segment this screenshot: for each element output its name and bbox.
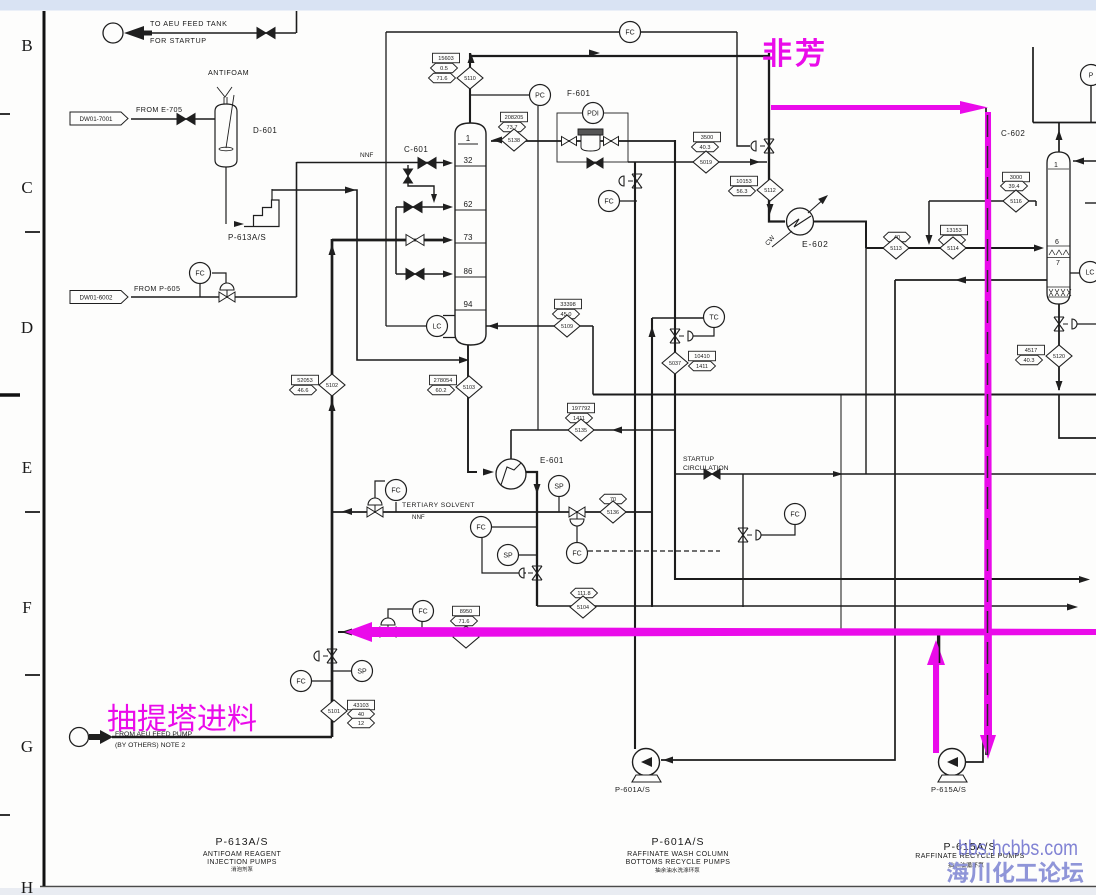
- instrument SP e601: [549, 476, 570, 497]
- valve tray32 bypass: [404, 169, 413, 183]
- svg-text:P-601A/S: P-601A/S: [652, 836, 705, 848]
- control valve overhead x769: [751, 139, 774, 153]
- tag 197792: [568, 403, 595, 413]
- svg-text:5113: 5113: [890, 246, 902, 252]
- svg-text:40.3: 40.3: [700, 145, 711, 151]
- wire NNF line y163: [297, 162, 444, 164]
- wire PC signal drop x538: [537, 106, 539, 430]
- arrow into tray62: [443, 204, 453, 211]
- wire feed line y240: [332, 239, 443, 242]
- wire SP stem: [558, 497, 560, 512]
- magenta label feed: [108, 704, 256, 732]
- wire FC dw6002 signal: [200, 273, 226, 297]
- svg-text:33398: 33398: [560, 302, 576, 308]
- diamond 5103: [456, 376, 482, 398]
- wire FC396 stem: [395, 502, 397, 512]
- top blue strip: [0, 0, 1096, 11]
- wire FC577 dashed: [588, 550, 720, 552]
- instrument FC dw6002: [190, 263, 211, 284]
- watermark haichuan forum: [947, 861, 1084, 883]
- arrow into E-602: [767, 204, 774, 214]
- svg-text:1411: 1411: [696, 364, 708, 370]
- wire C-602 bottom valve tail: [1075, 323, 1096, 325]
- wire C-602 bottoms: [1058, 304, 1060, 390]
- svg-text:P-613A/S: P-613A/S: [228, 233, 266, 242]
- zone tick: [25, 674, 40, 676]
- arrow 5135 left: [612, 427, 622, 434]
- svg-text:FC: FC: [391, 487, 400, 494]
- svg-text:F-601: F-601: [567, 89, 590, 98]
- wire C-602 overhead: [1033, 47, 1096, 152]
- svg-text:D-601: D-601: [253, 126, 277, 135]
- thick arrow from AEU pump: [89, 730, 113, 744]
- arrow steps inlet: [234, 221, 244, 227]
- tag 0.5: [431, 63, 458, 73]
- instrument FC recycle: [599, 191, 620, 212]
- arrow recycle right: [750, 159, 760, 166]
- arrow tertiary left: [342, 508, 352, 515]
- arrow into P-601: [663, 757, 673, 764]
- wire 5135 line y430: [511, 429, 675, 431]
- wire TC branch y318: [652, 317, 703, 319]
- arrow y607 right: [1067, 604, 1078, 611]
- exchanger E-602: [772, 198, 825, 247]
- tag 70: [600, 494, 627, 504]
- svg-text:197792: 197792: [572, 406, 591, 412]
- svg-text:5103: 5103: [463, 385, 475, 391]
- svg-text:P: P: [1089, 72, 1094, 79]
- svg-text:FC: FC: [625, 29, 634, 36]
- arrow P-613 discharge: [345, 187, 356, 194]
- zone tick: [0, 814, 10, 816]
- tag 71.6a: [429, 73, 456, 83]
- svg-text:FROM P-605: FROM P-605: [134, 284, 180, 293]
- svg-text:5104: 5104: [577, 605, 589, 611]
- wire tertiary dome signal: [375, 481, 385, 499]
- svg-text:FC: FC: [790, 511, 799, 518]
- wire return drop x895: [661, 280, 895, 760]
- wire main feed riser x332: [331, 239, 334, 737]
- tag 8950: [453, 606, 480, 616]
- valve tray73: [406, 235, 424, 246]
- wire AEU feed pump line: [112, 736, 332, 739]
- svg-text:(BY OTHERS) NOTE 2: (BY OTHERS) NOTE 2: [115, 742, 185, 749]
- svg-text:32: 32: [464, 156, 473, 165]
- wire 5116 branch: [929, 201, 1036, 206]
- arrow y579 right: [1079, 576, 1090, 583]
- wire long line y396: [593, 394, 1096, 396]
- control valve C-602 bottoms: [1054, 317, 1077, 331]
- wire FC481 signal: [492, 526, 537, 528]
- svg-text:71.6: 71.6: [459, 619, 470, 625]
- arrow into tray73: [443, 237, 453, 244]
- magenta up arrow: [927, 640, 945, 753]
- instrument LC C-602: [1080, 262, 1096, 283]
- valve from E-705: [177, 114, 195, 125]
- svg-text:12: 12: [358, 721, 364, 727]
- diamond 5110: [457, 67, 483, 89]
- pump steps P-613A/S: [226, 167, 279, 227]
- svg-text:39.4: 39.4: [1009, 184, 1020, 190]
- control valve E-601 out: [519, 566, 542, 580]
- svg-text:15603: 15603: [438, 56, 454, 62]
- arrow feed up2: [329, 400, 336, 411]
- svg-text:43103: 43103: [353, 703, 369, 709]
- wire C-602 return y280: [895, 279, 1047, 281]
- svg-text:1: 1: [1054, 162, 1058, 169]
- wire E-602 outlet: [813, 222, 866, 249]
- instrument FC 5136: [567, 543, 588, 564]
- tag 10410: [689, 351, 716, 361]
- svg-text:PC: PC: [535, 92, 545, 99]
- filter F-601 element: [578, 129, 603, 151]
- arrow into tray86: [443, 271, 453, 278]
- valve tray86: [406, 269, 424, 280]
- wire black under magenta x986: [985, 108, 987, 755]
- wire bottoms recycle y632: [338, 631, 938, 633]
- control valve DW01-6002: [219, 283, 235, 302]
- arrow bottoms down: [1056, 381, 1063, 391]
- svg-text:0.5: 0.5: [440, 66, 448, 72]
- exchanger E-601: [496, 459, 526, 489]
- control valve tertiary solvent: [367, 498, 383, 517]
- svg-text:E-602: E-602: [802, 239, 829, 249]
- off-page connector TO AEU: [103, 23, 123, 43]
- wire E-601 outlet: [526, 472, 537, 606]
- wire thin drop x841: [840, 395, 842, 633]
- diamond 5116: [1003, 190, 1029, 212]
- svg-text:B: B: [21, 36, 32, 55]
- svg-text:5037: 5037: [669, 361, 681, 367]
- svg-text:8950: 8950: [460, 609, 472, 615]
- valve tray32: [418, 158, 436, 169]
- arrow into column tray1: [492, 137, 502, 144]
- tag 40.3b: [1016, 355, 1043, 365]
- wire column overhead to F-601: [491, 140, 676, 142]
- diamond 5104: [570, 596, 596, 618]
- pump P-601A/S: [632, 749, 661, 783]
- wire LC connect: [386, 325, 426, 327]
- svg-text:94: 94: [464, 300, 473, 309]
- svg-text:10410: 10410: [694, 354, 710, 360]
- wire FC301 line: [312, 680, 332, 682]
- diamond 5137: [662, 352, 688, 374]
- arrow E-601 out down: [534, 484, 541, 494]
- instrument TC: [704, 307, 725, 328]
- column C-602: [1047, 152, 1071, 304]
- tag 13153: [941, 225, 968, 235]
- tag 52053: [292, 375, 319, 385]
- svg-text:5135: 5135: [575, 428, 587, 434]
- tag 40.3a: [692, 142, 719, 152]
- wire FC drop x743: [742, 474, 744, 607]
- D-601 vent funnel: [217, 87, 232, 104]
- svg-text:FC: FC: [604, 198, 613, 205]
- svg-text:E-601: E-601: [540, 456, 564, 465]
- arrow into C-602 top: [1074, 158, 1084, 165]
- wire DW01-7001 line: [131, 118, 215, 120]
- wire TC signal: [690, 328, 714, 336]
- arrow bypass down: [431, 194, 437, 203]
- svg-text:FOR STARTUP: FOR STARTUP: [150, 36, 207, 45]
- svg-text:INJECTION PUMPS: INJECTION PUMPS: [207, 859, 277, 866]
- svg-text:TO AEU FEED TANK: TO AEU FEED TANK: [150, 19, 228, 28]
- tag 278054: [430, 375, 457, 385]
- svg-text:PDI: PDI: [587, 110, 599, 117]
- svg-text:LC: LC: [433, 323, 442, 330]
- instrument FC feed: [291, 671, 312, 692]
- svg-text:5109: 5109: [561, 324, 573, 330]
- wire FC423 signal: [388, 609, 412, 621]
- wire P-615 discharge stub: [966, 740, 983, 762]
- valve startup circ: [704, 469, 720, 479]
- svg-text:5019: 5019: [700, 160, 712, 166]
- wire FC577 drop: [576, 526, 578, 542]
- wire hot feed drop x675: [675, 140, 1084, 579]
- diamond 5113: [883, 237, 909, 259]
- wire C-602 top stub right: [1085, 202, 1096, 204]
- arrow into column y325: [488, 323, 498, 330]
- svg-text:56.3: 56.3: [737, 189, 748, 195]
- title chinese 3: [948, 862, 984, 868]
- filter F-601 box: [557, 113, 628, 162]
- svg-text:F: F: [22, 598, 31, 617]
- svg-text:NNF: NNF: [360, 152, 373, 159]
- tag DW01-6002: [70, 291, 128, 304]
- svg-text:P-613A/S: P-613A/S: [216, 836, 269, 848]
- svg-text:C: C: [21, 178, 32, 197]
- wire P-601 discharge riser x635: [634, 162, 636, 749]
- magenta vertical line: [980, 112, 996, 759]
- thick arrow to AEU tank: [124, 26, 152, 40]
- off-page connector FROM AEU: [70, 728, 89, 747]
- svg-text:71.6: 71.6: [437, 76, 448, 82]
- arrow NNF into tray32: [443, 160, 453, 167]
- wire SP508 signal: [519, 554, 537, 556]
- title block P-613A/S: [203, 836, 282, 866]
- wire LC signal drop x386: [385, 32, 387, 326]
- svg-text:40.3: 40.3: [1024, 358, 1035, 364]
- wire LC2 connect: [1070, 272, 1079, 274]
- svg-text:E: E: [22, 458, 32, 477]
- control valve y632: [380, 618, 396, 637]
- wire P circle drop: [1090, 85, 1092, 123]
- wire solvent riser x652: [651, 318, 653, 607]
- wire tray32 bypass: [408, 165, 434, 198]
- svg-text:52053: 52053: [297, 378, 313, 384]
- diamond 5019: [693, 151, 719, 173]
- wire FC header y32: [386, 31, 737, 33]
- valve F-601 outlet: [604, 137, 619, 146]
- tag 46.6: [290, 385, 317, 395]
- tag 15603: [433, 53, 460, 63]
- instrument FC tertiary: [386, 480, 407, 501]
- svg-text:4517: 4517: [1025, 348, 1037, 354]
- valve F-601 inlet: [562, 137, 577, 146]
- control valve x743: [738, 528, 761, 542]
- svg-text:ANTIFOAM: ANTIFOAM: [208, 68, 249, 77]
- wire recycle drop x593: [592, 326, 594, 395]
- svg-text:FC: FC: [572, 550, 581, 557]
- instrument SP feed: [352, 661, 373, 682]
- tag 40d: [348, 709, 375, 719]
- svg-text:P-615A/S: P-615A/S: [931, 785, 966, 794]
- svg-text:3000: 3000: [1010, 175, 1022, 181]
- wire PC tap: [470, 94, 529, 96]
- tag 71.6b: [451, 616, 478, 626]
- svg-text:NNF: NNF: [412, 514, 425, 521]
- arrow into E-601: [483, 469, 494, 476]
- arrow x929 down: [926, 235, 933, 245]
- svg-text:TERTIARY SOLVENT: TERTIARY SOLVENT: [402, 502, 475, 509]
- diamond 5120: [1046, 345, 1072, 367]
- tag 3500: [694, 132, 721, 142]
- tag 3000: [1003, 172, 1030, 182]
- instrument PC: [530, 85, 551, 106]
- valve TO AEU line: [257, 28, 275, 39]
- diamond y632: [453, 626, 479, 648]
- svg-text:ANTIFOAM REAGENT: ANTIFOAM REAGENT: [203, 851, 282, 858]
- wire column top riser: [469, 53, 471, 123]
- wire FC743 signal: [758, 525, 795, 535]
- svg-text:40: 40: [358, 712, 364, 718]
- arrow E-602 vent: [818, 192, 830, 204]
- diamond 5112: [757, 179, 783, 201]
- svg-text:TC: TC: [709, 314, 718, 321]
- instrument P top right: [1081, 65, 1096, 86]
- svg-text:208205: 208205: [505, 115, 524, 121]
- arrow feed up1: [329, 244, 336, 255]
- wire C-602 feed y161: [1073, 160, 1096, 162]
- diamond 5109: [554, 315, 580, 337]
- wire tray62 line: [396, 206, 443, 208]
- zone tick: [0, 113, 10, 115]
- arrow y632 left: [341, 629, 352, 636]
- zone tick: [25, 511, 40, 513]
- vessel D-601: [215, 95, 237, 167]
- svg-text:非芳: 非芳: [762, 38, 828, 71]
- svg-text:5114: 5114: [947, 246, 959, 252]
- wire bottoms line to E-601: [468, 345, 477, 472]
- tag 40c: [939, 235, 966, 245]
- wire FC valve signal: [620, 200, 637, 202]
- tag 40b: [884, 232, 911, 242]
- title chinese 1: [231, 866, 253, 871]
- diamond 5102: [319, 374, 345, 396]
- tag 43103: [348, 700, 375, 710]
- instrument FC x743: [785, 504, 806, 525]
- svg-text:73: 73: [464, 233, 473, 242]
- tag 4517: [1018, 345, 1045, 355]
- diamond 5114: [940, 237, 966, 259]
- arrow overhead up: [1056, 130, 1063, 140]
- svg-text:FC: FC: [195, 270, 204, 277]
- tag 73.7: [499, 122, 526, 132]
- tag 60.2: [428, 385, 455, 395]
- instrument PDI: [583, 103, 604, 124]
- svg-text:FC: FC: [418, 608, 427, 615]
- control valve recycle x635: [619, 174, 642, 188]
- tag 10153: [731, 176, 758, 186]
- svg-text:86: 86: [464, 267, 473, 276]
- arrow startup right: [833, 471, 843, 477]
- wire P-613 discharge: [272, 190, 462, 360]
- tag 45.0: [553, 309, 580, 319]
- svg-text:6: 6: [1055, 239, 1059, 246]
- svg-text:SP: SP: [554, 483, 564, 490]
- pump P-615A/S: [938, 749, 967, 783]
- arrow x652 up: [649, 326, 656, 337]
- arrow overhead flow: [589, 50, 600, 57]
- instrument FC y632: [413, 601, 434, 622]
- tag 1411b: [689, 361, 716, 371]
- svg-text:SP: SP: [357, 668, 367, 675]
- valve 5136 line: [569, 507, 585, 526]
- svg-text:G: G: [21, 737, 33, 756]
- magenta arrow bottom: [345, 622, 1096, 642]
- wire TO AEU feed line: [128, 32, 296, 34]
- svg-text:LC: LC: [1086, 269, 1095, 276]
- wire recycle header y161: [628, 161, 767, 163]
- zone tick: [25, 231, 40, 233]
- arrow into bottoms line: [459, 357, 469, 364]
- wire tray86 line: [396, 273, 443, 275]
- svg-text:10153: 10153: [736, 179, 752, 185]
- diamond 5101: [321, 700, 347, 722]
- column C-601: [455, 123, 486, 345]
- svg-text:1: 1: [466, 134, 471, 143]
- wire SP362 line: [332, 670, 351, 672]
- svg-text:BOTTOMS RECYCLE PUMPS: BOTTOMS RECYCLE PUMPS: [626, 859, 731, 866]
- svg-text:5138: 5138: [508, 138, 520, 144]
- svg-text:FC: FC: [476, 524, 485, 531]
- wire startup circulation line: [675, 473, 1096, 475]
- control valve TC x675: [670, 329, 693, 343]
- tag 1411a: [566, 413, 593, 423]
- svg-text:STARTUP: STARTUP: [683, 456, 715, 463]
- tag 39.4: [1001, 181, 1028, 191]
- tag 56.3: [729, 186, 756, 196]
- wire NNF riser x297: [296, 162, 298, 297]
- tag 111.8: [571, 588, 598, 598]
- tag 12: [348, 718, 375, 728]
- svg-text:5120: 5120: [1053, 354, 1065, 360]
- instrument LC C-601: [427, 316, 448, 337]
- instrument FC e601: [471, 517, 492, 538]
- svg-text:62: 62: [464, 200, 473, 209]
- svg-text:FROM AEU FEED PUMP: FROM AEU FEED PUMP: [115, 731, 193, 738]
- svg-text:60.2: 60.2: [436, 388, 447, 394]
- wire FC423 stem: [421, 622, 423, 632]
- arrow into C-602: [1034, 245, 1044, 252]
- wire tertiary solvent line y512: [332, 511, 652, 513]
- svg-text:278054: 278054: [434, 378, 453, 384]
- wire bottoms to right: [1059, 395, 1096, 439]
- drawing border left: [43, 11, 46, 886]
- svg-text:5102: 5102: [326, 383, 338, 389]
- svg-text:H: H: [21, 878, 33, 895]
- svg-text:FC: FC: [296, 678, 305, 685]
- diamond 5136: [600, 501, 626, 523]
- title block P-601A/S: [626, 836, 731, 866]
- svg-text:SP: SP: [503, 552, 513, 559]
- svg-text:RAFFINATE WASH COLUMN: RAFFINATE WASH COLUMN: [627, 851, 729, 858]
- svg-text:5101: 5101: [328, 709, 340, 715]
- instrument FC header: [620, 22, 641, 43]
- svg-text:13153: 13153: [946, 228, 962, 234]
- zone tick thick: [0, 393, 20, 397]
- wire E-601 top line: [510, 430, 512, 459]
